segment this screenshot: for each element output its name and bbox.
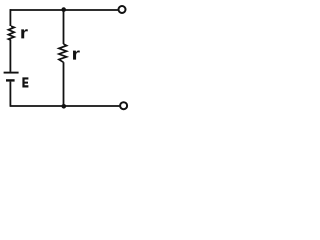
label r (left resistor) bbox=[21, 29, 28, 38]
wire: bottom horizontal from left corner to bottom terminal bbox=[10, 105, 120, 107]
wire: middle branch upper segment bbox=[63, 10, 65, 45]
wire: top horizontal from left corner to top terminal bbox=[10, 9, 118, 11]
battery E: short negative plate bbox=[6, 79, 15, 81]
node: bottom junction dot bbox=[62, 104, 67, 109]
label E (battery) bbox=[22, 77, 28, 87]
resistor R (left, value r) bbox=[8, 26, 14, 40]
node: top junction dot bbox=[61, 7, 66, 12]
resistor R (middle, value r) bbox=[59, 44, 67, 62]
wire: left branch upper segment bbox=[9, 9, 11, 26]
wire: left branch middle segment (resistor to battery) bbox=[9, 40, 11, 72]
terminal: top output (open circle) bbox=[119, 6, 126, 13]
battery E: long positive plate bbox=[4, 72, 19, 74]
terminal: bottom output (open circle) bbox=[120, 102, 127, 109]
label r (middle resistor) bbox=[73, 50, 80, 59]
wire: left branch lower segment (battery to bottom wire) bbox=[9, 82, 11, 107]
wire: middle branch lower segment bbox=[63, 62, 65, 106]
